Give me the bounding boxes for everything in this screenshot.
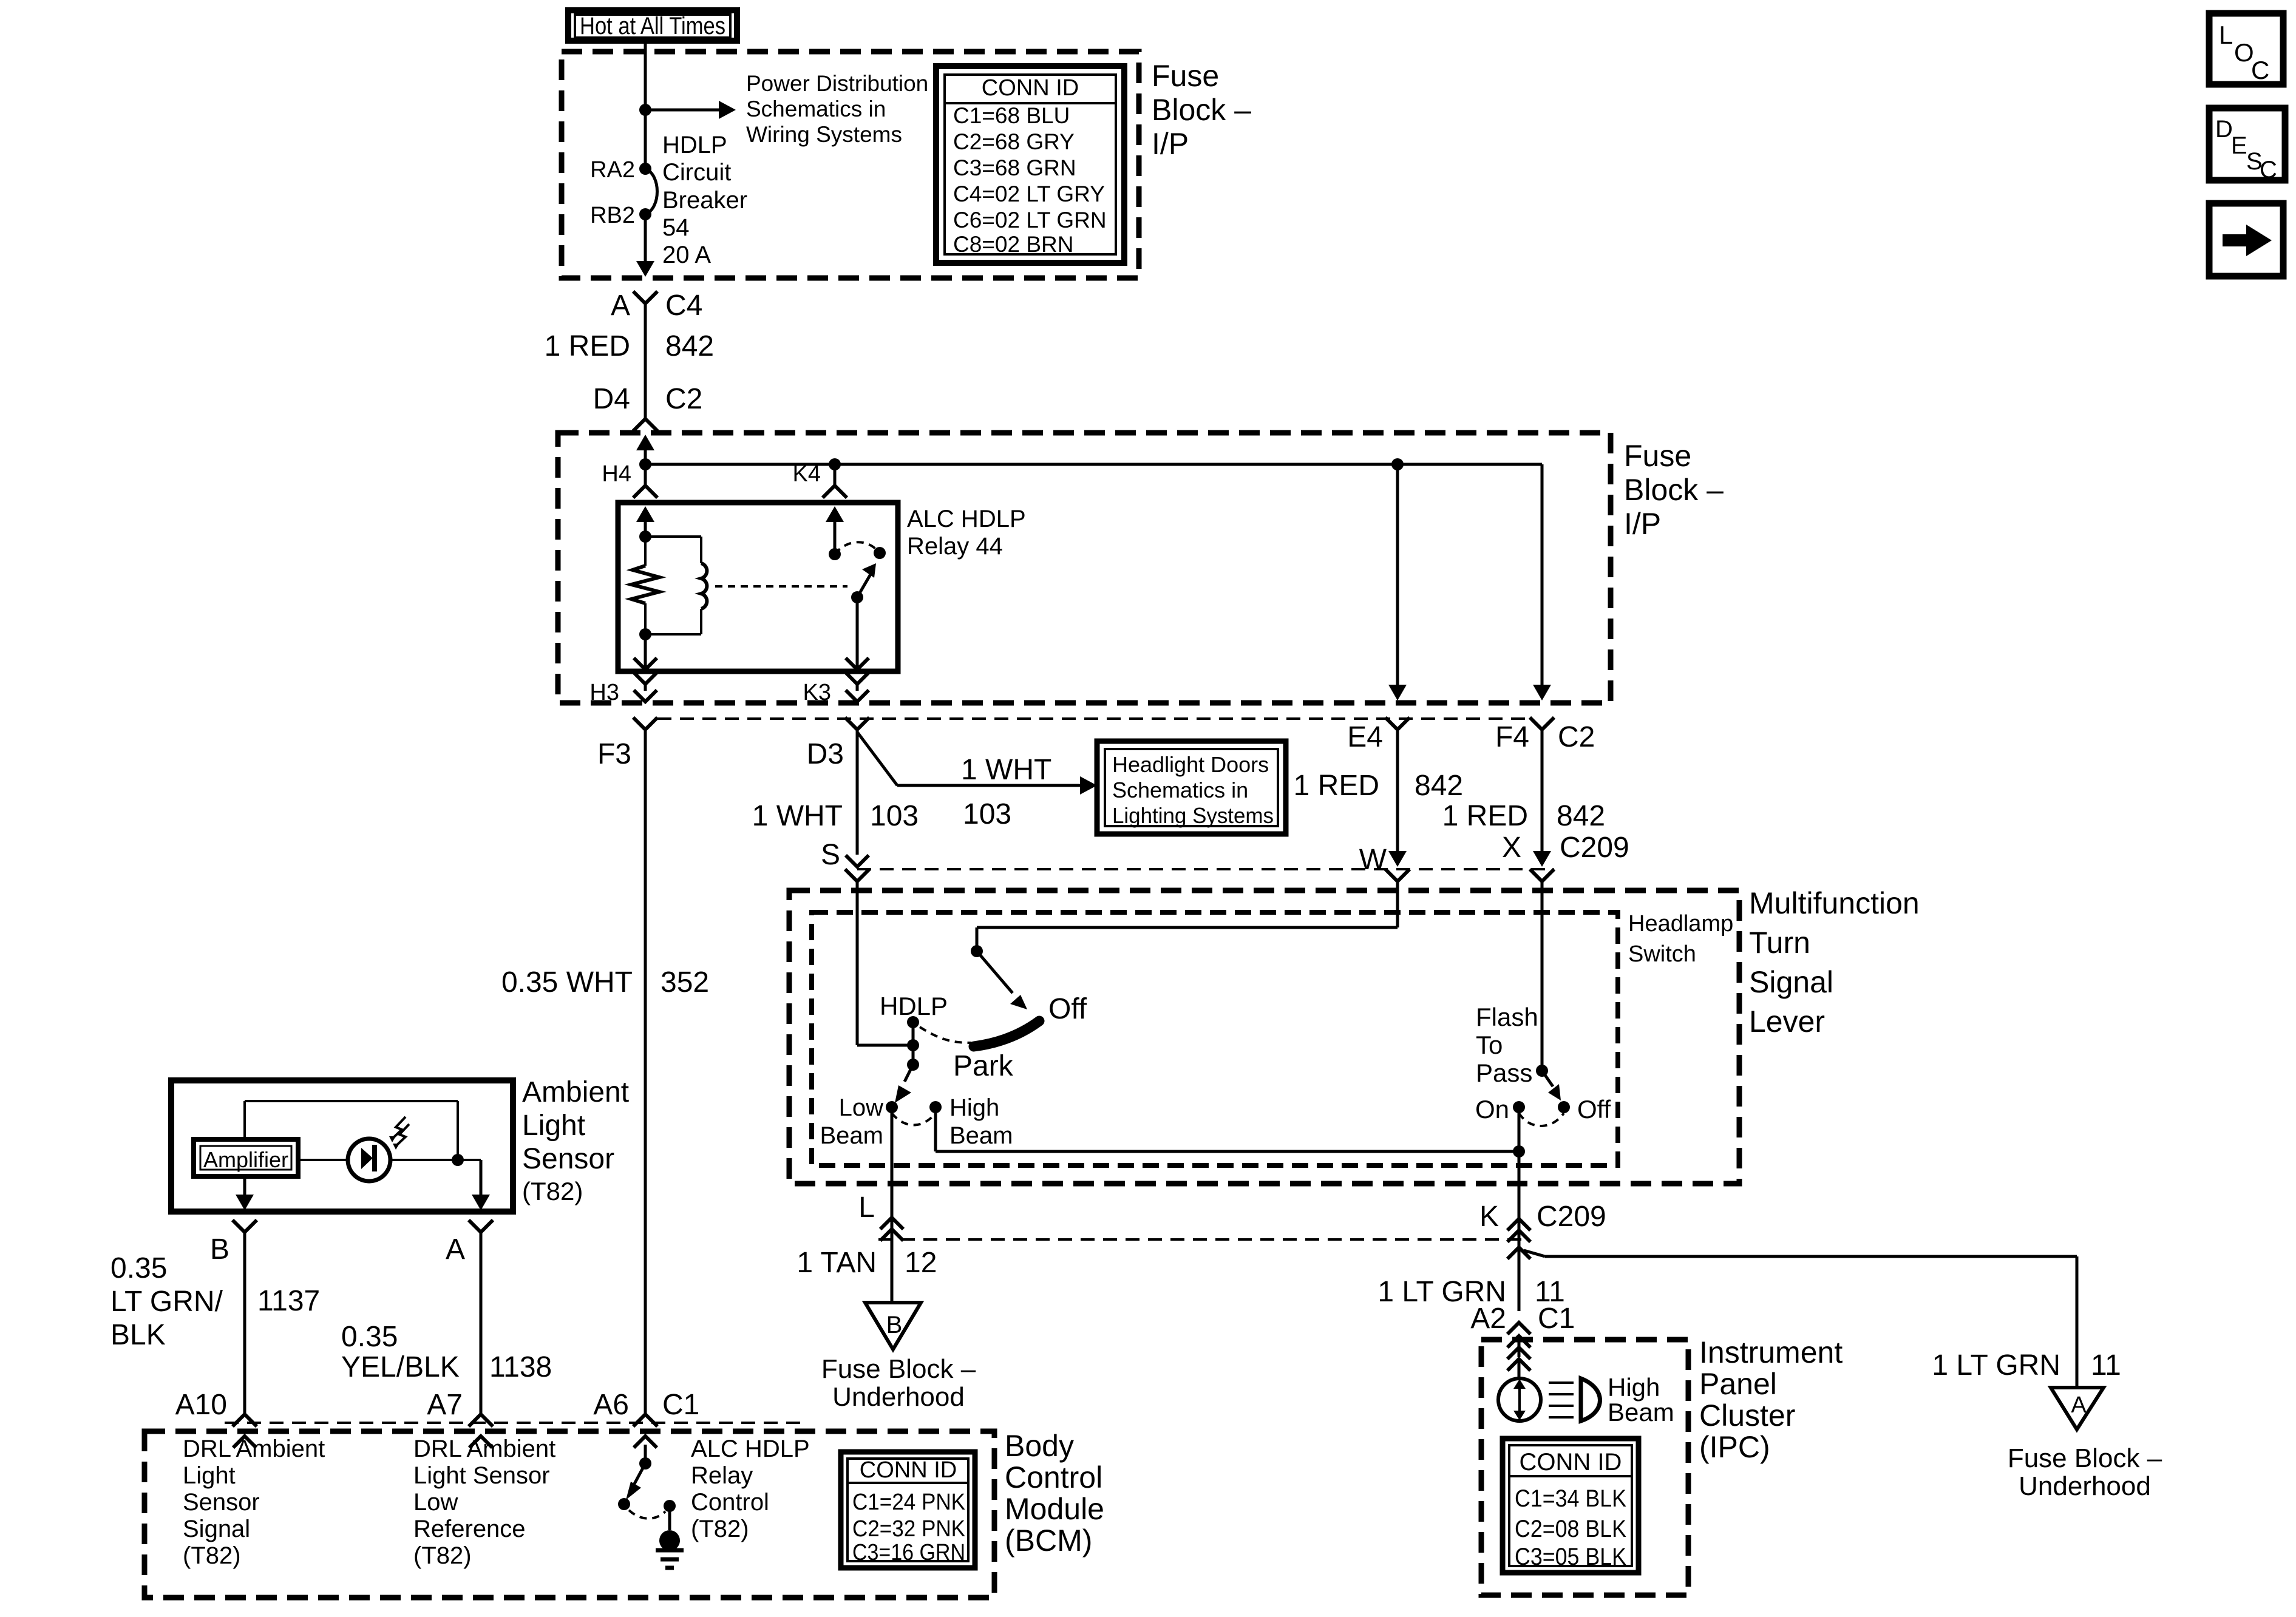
CONN ID table (IPC)	[1503, 1439, 1639, 1573]
svg-text:Control: Control	[1005, 1460, 1102, 1494]
svg-text:C3=16 GRN: C3=16 GRN	[852, 1540, 965, 1565]
svg-text:On: On	[1475, 1095, 1509, 1124]
dimmer switch: arm to Low Beam	[895, 1065, 913, 1103]
connector A / C4 (fork below fuse block)	[633, 291, 657, 303]
svg-text:Amplifier: Amplifier	[203, 1147, 288, 1172]
svg-text:C1=34 BLK: C1=34 BLK	[1515, 1485, 1626, 1512]
connector S crossing (arrow and fork)	[845, 855, 869, 881]
svg-text:Beam: Beam	[949, 1122, 1013, 1149]
node: sensor output junction	[452, 1154, 464, 1166]
label: Fuse Block - Underhood (A)	[2008, 1443, 2162, 1501]
svg-text:0.35 WHT: 0.35 WHT	[501, 966, 633, 998]
svg-text:Power Distribution: Power Distribution	[746, 71, 928, 96]
svg-text:Low: Low	[839, 1094, 883, 1121]
svg-text:Light: Light	[522, 1110, 585, 1142]
BCM relay control switch	[618, 1457, 676, 1519]
svg-text:D: D	[2215, 116, 2233, 143]
label: DRL Ambient Light Sensor Low Reference (T82)	[413, 1436, 555, 1569]
wire: arrow to power distribution schematics	[645, 101, 736, 119]
svg-text:Breaker: Breaker	[662, 187, 747, 214]
relay coil winding	[645, 537, 707, 634]
svg-text:Ambient: Ambient	[522, 1076, 629, 1108]
off-page triangle A: Fuse Block - Underhood	[2051, 1388, 2104, 1429]
svg-text:K: K	[1479, 1201, 1499, 1233]
svg-text:Headlight Doors: Headlight Doors	[1112, 752, 1269, 777]
svg-text:352: 352	[661, 966, 709, 998]
svg-text:Hot at All Times: Hot at All Times	[580, 13, 725, 39]
svg-text:Block –: Block –	[1152, 93, 1251, 127]
wire: S into switch to HDLP contact	[857, 881, 913, 1045]
svg-text:K4: K4	[793, 461, 821, 487]
svg-text:A: A	[2071, 1392, 2087, 1418]
svg-text:C209: C209	[1537, 1201, 1606, 1233]
connector fork A6/C1	[633, 1414, 657, 1426]
svg-text:CONN ID: CONN ID	[1520, 1449, 1622, 1476]
svg-text:Signal: Signal	[1749, 965, 1833, 999]
BCM pin chevron A10	[233, 1436, 256, 1448]
svg-text:C6=02 LT GRN: C6=02 LT GRN	[953, 208, 1107, 232]
svg-text:C4: C4	[665, 290, 702, 322]
svg-text:Sensor: Sensor	[183, 1489, 260, 1516]
svg-text:Relay: Relay	[691, 1462, 753, 1489]
wire: sensor internal feedback loop	[245, 1101, 458, 1160]
svg-text:0.35: 0.35	[110, 1252, 167, 1284]
connector fork below relay (H side)	[633, 672, 657, 702]
relay mechanical linkage (dashed)	[715, 585, 847, 588]
svg-text:Control: Control	[691, 1489, 769, 1516]
svg-text:F3: F3	[597, 738, 631, 770]
svg-text:To: To	[1476, 1031, 1503, 1059]
svg-text:High: High	[1608, 1373, 1660, 1402]
svg-text:Switch: Switch	[1628, 941, 1696, 967]
contact Off (turn lever)	[1558, 1101, 1570, 1113]
connector fork pin B	[233, 1220, 257, 1414]
svg-text:Reference: Reference	[413, 1516, 526, 1542]
svg-text:Wiring Systems: Wiring Systems	[746, 122, 902, 147]
svg-text:(IPC): (IPC)	[1699, 1430, 1770, 1464]
svg-text:D3: D3	[807, 738, 844, 770]
svg-text:BLK: BLK	[110, 1319, 166, 1351]
svg-text:Underhood: Underhood	[832, 1382, 965, 1412]
svg-text:(T82): (T82)	[183, 1542, 241, 1569]
svg-text:C1=24 PNK: C1=24 PNK	[852, 1490, 965, 1515]
label High Beam	[949, 1094, 1013, 1149]
svg-text:Beam: Beam	[820, 1122, 884, 1149]
svg-text:(T82): (T82)	[522, 1177, 583, 1205]
connector F4 fork	[1530, 717, 1554, 741]
svg-text:RB2: RB2	[590, 203, 635, 228]
svg-text:X: X	[1502, 832, 1521, 864]
svg-text:A: A	[446, 1233, 465, 1266]
connector K crossing (C209)	[1507, 1107, 1530, 1311]
wire: sensor pin B lead	[236, 1176, 254, 1210]
svg-text:842: 842	[665, 330, 714, 362]
svg-text:Turn: Turn	[1749, 926, 1810, 960]
relay switch: dashed throw arc	[835, 542, 880, 554]
svg-text:A7: A7	[427, 1389, 463, 1421]
headlamp switch: Off arm with arrow	[977, 951, 1027, 1009]
svg-text:C1: C1	[662, 1389, 699, 1421]
circuit breaker: HDLP Circuit Breaker 54 20A	[639, 163, 657, 220]
svg-text:ALC HDLP: ALC HDLP	[691, 1436, 810, 1462]
svg-text:Signal: Signal	[183, 1516, 250, 1542]
wire: relay common down to K3	[846, 597, 869, 670]
relay switch: movable arm	[851, 563, 876, 603]
svg-text:Schematics in: Schematics in	[1112, 778, 1248, 802]
connector H4 fork at relay	[633, 486, 657, 498]
svg-text:Lever: Lever	[1749, 1005, 1825, 1039]
wire label 0.35 LT GRN/ BLK	[110, 1252, 223, 1351]
svg-text:High: High	[949, 1094, 999, 1121]
label: Power Distribution Schematics in Wiring Systems	[746, 71, 928, 147]
contact On	[1513, 1101, 1525, 1113]
box: Headlight Doors Schematics in Lighting Systems	[1097, 741, 1286, 834]
svg-text:Fuse Block –: Fuse Block –	[821, 1354, 976, 1384]
headlamp switch: HDLP contact column	[907, 1016, 919, 1071]
svg-text:1138: 1138	[489, 1351, 552, 1383]
svg-text:A: A	[611, 290, 630, 322]
wire: high beam to On junction	[936, 1107, 1519, 1151]
svg-text:L: L	[2219, 21, 2233, 49]
svg-text:Sensor: Sensor	[522, 1143, 614, 1175]
svg-text:HDLP: HDLP	[662, 132, 727, 158]
label: HDLP Circuit Breaker 54 20 A	[662, 132, 747, 268]
instrument panel cluster dashed box	[1481, 1340, 1688, 1595]
multifunction turn signal lever dashed box	[789, 890, 1739, 1184]
label: Instrument Panel Cluster (IPC)	[1699, 1335, 1843, 1464]
svg-text:1 LT GRN: 1 LT GRN	[1932, 1349, 2060, 1381]
svg-text:Headlamp: Headlamp	[1628, 911, 1733, 937]
svg-text:0.35: 0.35	[341, 1321, 398, 1353]
label: Ambient Light Sensor (T82)	[522, 1076, 629, 1205]
icon box LOC	[2209, 13, 2283, 84]
light rays into photodiode	[389, 1117, 409, 1150]
svg-text:E4: E4	[1347, 721, 1383, 753]
svg-text:C1=68 BLU: C1=68 BLU	[953, 103, 1070, 128]
svg-text:842: 842	[1557, 800, 1605, 832]
wire: E4 into headlamp switch to Off arm	[971, 881, 1398, 957]
svg-text:Low: Low	[413, 1489, 458, 1516]
node: bus at H4	[639, 458, 651, 470]
BCM pin chevron A7	[469, 1436, 492, 1448]
svg-text:K3: K3	[803, 680, 831, 705]
relay switch: NO contact	[874, 547, 886, 559]
flash-to-pass arm with arrow	[1542, 1071, 1561, 1100]
wire: F3 long run down (0.35 WHT 352)	[644, 730, 647, 1414]
svg-text:11: 11	[2091, 1349, 2121, 1381]
svg-text:Instrument: Instrument	[1699, 1335, 1843, 1369]
box: Hot at All Times	[568, 10, 737, 41]
connector row C1 (thin dashed)	[225, 1422, 807, 1424]
svg-text:Light Sensor: Light Sensor	[413, 1462, 550, 1489]
connector L crossing (C209 row)	[880, 1107, 903, 1303]
off-page triangle B: Fuse Block - Underhood	[865, 1303, 921, 1349]
CONN ID table (fuse block I/P)	[936, 66, 1124, 263]
svg-text:S: S	[821, 839, 840, 871]
svg-text:(BCM): (BCM)	[1005, 1524, 1092, 1558]
high beam indicator lamp	[1498, 1378, 1541, 1421]
svg-text:Lighting Systems: Lighting Systems	[1112, 803, 1274, 828]
svg-text:Fuse: Fuse	[1624, 439, 1691, 473]
node: bus at E4 branch	[1391, 458, 1404, 470]
amplifier box	[194, 1139, 298, 1176]
svg-text:HDLP: HDLP	[880, 992, 948, 1020]
svg-text:Light: Light	[183, 1462, 236, 1489]
connector row C209 (thin dashed)	[857, 868, 1554, 870]
svg-text:1 WHT: 1 WHT	[752, 800, 843, 832]
svg-text:A6: A6	[593, 1389, 629, 1421]
connector D3 fork	[845, 717, 869, 741]
label: Multifunction Turn Signal Lever	[1749, 886, 1920, 1039]
svg-text:C4=02 LT GRY: C4=02 LT GRY	[953, 181, 1105, 206]
svg-text:1 RED: 1 RED	[1442, 800, 1528, 832]
label: ALC HDLP Relay 44	[907, 506, 1026, 560]
fuse block I/P (upper) dashed box	[562, 52, 1139, 278]
label: Body Control Module (BCM)	[1005, 1429, 1104, 1558]
svg-text:RA2: RA2	[590, 157, 635, 183]
connector K4 fork at relay	[823, 486, 847, 498]
connector D4/C2 fork into lower fuse block	[633, 419, 657, 431]
connector W crossing	[1385, 730, 1410, 881]
connector F3 fork	[633, 717, 657, 741]
wire: D3 down to S	[856, 730, 859, 855]
svg-text:Block –: Block –	[1624, 473, 1724, 507]
svg-text:C8=02 BRN: C8=02 BRN	[953, 232, 1073, 257]
connector fork A7	[469, 1414, 493, 1426]
svg-text:C2=08 BLK: C2=08 BLK	[1515, 1516, 1626, 1542]
svg-text:A2: A2	[1470, 1303, 1506, 1335]
svg-text:C: C	[2251, 56, 2269, 84]
svg-text:B: B	[210, 1233, 229, 1266]
svg-text:Flash: Flash	[1476, 1003, 1538, 1031]
node: coil top	[639, 531, 651, 543]
wire: K4 down to relay	[834, 464, 837, 486]
svg-text:12: 12	[905, 1247, 937, 1279]
svg-text:H4: H4	[602, 461, 631, 487]
headlamp beam icon	[1549, 1378, 1600, 1421]
label High Beam (IPC)	[1608, 1373, 1674, 1426]
label: ALC HDLP Relay Control (T82)	[691, 1436, 810, 1542]
dimmer: High Beam contact	[929, 1101, 942, 1113]
relay K1: ALC HDLP Relay 44 box	[618, 503, 898, 671]
svg-text:C2=32 PNK: C2=32 PNK	[852, 1516, 965, 1542]
label Low Beam	[820, 1094, 884, 1149]
node: bus at K4	[829, 458, 841, 470]
svg-text:L: L	[858, 1192, 875, 1224]
label Flash To Pass	[1476, 1003, 1538, 1087]
wire: X down to flash-to-pass arm	[1536, 881, 1548, 1077]
svg-text:Cluster: Cluster	[1699, 1398, 1795, 1432]
wire label 0.35 YEL/BLK	[341, 1321, 460, 1383]
dashed arc On-Off	[1519, 1113, 1564, 1126]
wire: photodiode output	[390, 1159, 481, 1161]
svg-text:Off: Off	[1577, 1095, 1611, 1124]
svg-text:Fuse Block –: Fuse Block –	[2008, 1443, 2162, 1473]
headlamp switch dashed box	[812, 912, 1618, 1165]
headlamp switch: rotary wiper (bold arc)	[974, 1021, 1039, 1046]
wire: D3 branch to headlight doors schematics	[857, 732, 1097, 795]
svg-text:1 RED: 1 RED	[545, 330, 630, 362]
svg-text:Panel: Panel	[1699, 1367, 1777, 1401]
svg-text:C2: C2	[665, 383, 702, 415]
svg-text:Module: Module	[1005, 1492, 1104, 1526]
wire: breaker output down to pin A	[636, 214, 654, 277]
relay coil pin arrow (H4 side)	[636, 506, 654, 537]
relay switch: K4 arm contact	[826, 506, 844, 560]
svg-text:A10: A10	[175, 1389, 227, 1421]
connector X crossing	[1530, 730, 1554, 881]
svg-text:(T82): (T82)	[691, 1516, 749, 1542]
svg-text:Beam: Beam	[1608, 1398, 1674, 1426]
connector row thin dashed (lever bottom)	[878, 1238, 1530, 1241]
svg-text:1 RED: 1 RED	[1294, 770, 1379, 802]
svg-text:LT GRN/: LT GRN/	[110, 1286, 223, 1318]
svg-text:Multifunction: Multifunction	[1749, 886, 1920, 920]
wire: F4 branch down inside fuse block	[1533, 464, 1551, 700]
svg-text:I/P: I/P	[1624, 507, 1661, 541]
svg-text:DRL Ambient: DRL Ambient	[413, 1436, 555, 1462]
svg-text:C: C	[2260, 157, 2277, 183]
svg-text:W: W	[1359, 844, 1387, 876]
body control module dashed box	[144, 1431, 994, 1598]
svg-text:Schematics in: Schematics in	[746, 97, 886, 121]
svg-text:103: 103	[963, 798, 1011, 830]
svg-text:Relay 44: Relay 44	[907, 533, 1003, 560]
wire: 1 RED 842 (C4 to C2)	[644, 303, 647, 419]
svg-text:YEL/BLK: YEL/BLK	[341, 1351, 460, 1383]
wire: coil bottom to H3 pin arrow	[634, 634, 657, 670]
label: Headlamp Switch	[1628, 911, 1733, 967]
photodiode D1	[348, 1139, 390, 1181]
wire: amplifier to photodiode	[298, 1159, 348, 1161]
svg-text:1 WHT: 1 WHT	[961, 754, 1051, 786]
connector E4 fork	[1385, 717, 1410, 741]
connector fork A10	[233, 1414, 257, 1426]
wire: internal bus H4-K4-E4-F4	[645, 463, 1542, 466]
svg-text:CONN ID: CONN ID	[860, 1457, 957, 1483]
label: Fuse Block - I/P (upper)	[1152, 59, 1251, 161]
wire: E4 branch down inside fuse block	[1388, 464, 1407, 700]
node: coil bottom	[639, 628, 651, 640]
svg-text:C2: C2	[1558, 721, 1595, 753]
dimmer: Low Beam contact	[886, 1101, 898, 1113]
pin D4 arrow into fuse block	[636, 435, 654, 464]
svg-text:Fuse: Fuse	[1152, 59, 1219, 93]
connector fork below relay (K side)	[845, 672, 869, 702]
svg-text:F4: F4	[1495, 721, 1529, 753]
BCM pin chevron A6	[634, 1436, 657, 1463]
connector row C2 (thin dashed)	[657, 717, 1530, 720]
svg-text:Pass: Pass	[1476, 1059, 1532, 1087]
wire: sensor pin A lead	[472, 1160, 490, 1210]
svg-text:CONN ID: CONN ID	[982, 75, 1079, 101]
fuse block I/P (lower) dashed box	[558, 433, 1611, 703]
node: power distribution tap	[639, 104, 651, 116]
svg-text:(T82): (T82)	[413, 1542, 472, 1569]
ambient light sensor box	[171, 1080, 513, 1212]
connector A2/C1 crossing into IPC	[1507, 1323, 1530, 1379]
wire: battery feed into circuit breaker	[644, 43, 647, 169]
svg-text:I/P: I/P	[1152, 127, 1189, 161]
wire: branch to fuse block underhood A	[1524, 1250, 2077, 1388]
label: Fuse Block - Underhood (B)	[821, 1354, 976, 1412]
label: DRL Ambient Light Sensor Signal (T82)	[183, 1436, 325, 1569]
svg-text:20 A: 20 A	[662, 242, 711, 268]
svg-text:C3=68 GRN: C3=68 GRN	[953, 155, 1076, 180]
svg-text:C1: C1	[1538, 1303, 1575, 1335]
svg-text:D4: D4	[593, 383, 630, 415]
connector fork pin A	[469, 1220, 493, 1414]
headlamp switch: dashed detent arc	[920, 1027, 971, 1043]
label: Fuse Block - I/P (lower)	[1624, 439, 1724, 541]
ground (BCM internal)	[656, 1506, 684, 1568]
svg-text:103: 103	[870, 800, 919, 832]
icon box DESC	[2209, 108, 2285, 183]
svg-text:Body: Body	[1005, 1429, 1074, 1463]
svg-text:E: E	[2231, 132, 2247, 159]
icon box arrow	[2209, 203, 2283, 276]
svg-text:1137: 1137	[257, 1285, 320, 1317]
svg-text:Underhood: Underhood	[2019, 1471, 2151, 1501]
node: On wire junction	[1513, 1145, 1525, 1158]
wire: H4 down to relay	[644, 464, 647, 486]
svg-text:Off: Off	[1048, 993, 1087, 1025]
svg-text:C209: C209	[1560, 832, 1629, 864]
svg-text:1 TAN: 1 TAN	[796, 1247, 877, 1279]
dimmer: dashed arc between beams	[892, 1113, 936, 1125]
svg-text:H3: H3	[589, 680, 619, 705]
svg-text:ALC HDLP: ALC HDLP	[907, 506, 1026, 532]
svg-text:Park: Park	[953, 1050, 1014, 1082]
resistor (relay suppression)	[631, 537, 659, 634]
svg-text:Circuit: Circuit	[662, 159, 731, 186]
svg-text:C2=68 GRY: C2=68 GRY	[953, 129, 1075, 154]
svg-text:C3=05 BLK: C3=05 BLK	[1515, 1544, 1626, 1570]
svg-text:842: 842	[1415, 770, 1463, 802]
svg-text:54: 54	[662, 214, 690, 241]
svg-text:DRL Ambient: DRL Ambient	[183, 1436, 325, 1462]
svg-text:B: B	[886, 1312, 903, 1338]
CONN ID table (BCM)	[841, 1452, 975, 1568]
